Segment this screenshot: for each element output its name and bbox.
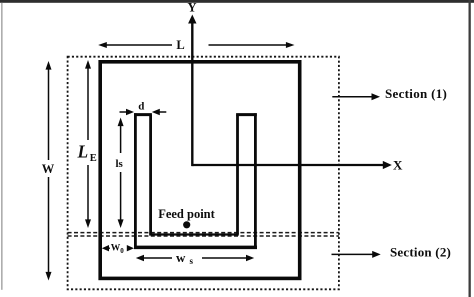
U-slot right arm outer edge bbox=[254, 113, 257, 247]
svg-text:d: d bbox=[138, 100, 144, 112]
svg-text:W: W bbox=[42, 162, 55, 176]
U-slot right arm inner edge bbox=[236, 115, 239, 235]
svg-text:ls: ls bbox=[116, 158, 124, 170]
Section (2) pointer arrow bbox=[332, 253, 375, 255]
LE dimension arrow bbox=[87, 66, 89, 141]
U-slot left arm outer edge bbox=[134, 113, 137, 247]
W0 dimension arrows bbox=[104, 247, 110, 249]
svg-text:Y: Y bbox=[187, 0, 196, 14]
svg-text:L: L bbox=[77, 142, 89, 162]
svg-text:w: w bbox=[176, 250, 186, 265]
patch rectangle bbox=[100, 62, 300, 279]
page right border line bbox=[469, 0, 471, 297]
W dimension arrow bbox=[48, 67, 50, 161]
svg-text:Section (2): Section (2) bbox=[390, 245, 451, 260]
svg-text:s: s bbox=[190, 256, 194, 266]
U-slot left arm top cap bbox=[134, 113, 152, 116]
svg-text:E: E bbox=[90, 153, 97, 164]
U-slot bottom bar bbox=[134, 246, 257, 250]
U-slot inner bottom edge bbox=[149, 233, 239, 235]
svg-text:Section (1): Section (1) bbox=[385, 86, 447, 101]
U-slot right arm top cap bbox=[236, 113, 257, 116]
Y axis bbox=[191, 22, 193, 167]
Section (2) top dashed boundary bbox=[68, 235, 339, 237]
feed point dot bbox=[183, 221, 190, 228]
svg-text:L: L bbox=[176, 38, 184, 52]
Section (1) bottom dashed boundary bbox=[68, 232, 339, 234]
svg-text:X: X bbox=[393, 158, 403, 173]
page top border bar bbox=[0, 0, 474, 3]
X axis bbox=[192, 164, 384, 166]
svg-text:Feed point: Feed point bbox=[158, 207, 215, 221]
ground plane dashed rectangle bbox=[68, 57, 339, 290]
page left border line bbox=[1, 3, 2, 290]
ls dimension arrow bbox=[120, 123, 122, 153]
ws dimension arrow bbox=[141, 257, 172, 259]
d dimension arrows bbox=[120, 111, 129, 113]
U-slot left arm inner edge bbox=[149, 115, 152, 235]
svg-text:0: 0 bbox=[120, 247, 124, 255]
Section (1) pointer arrow bbox=[332, 96, 373, 98]
svg-text:W: W bbox=[111, 244, 121, 254]
L dimension arrow bbox=[104, 44, 173, 46]
